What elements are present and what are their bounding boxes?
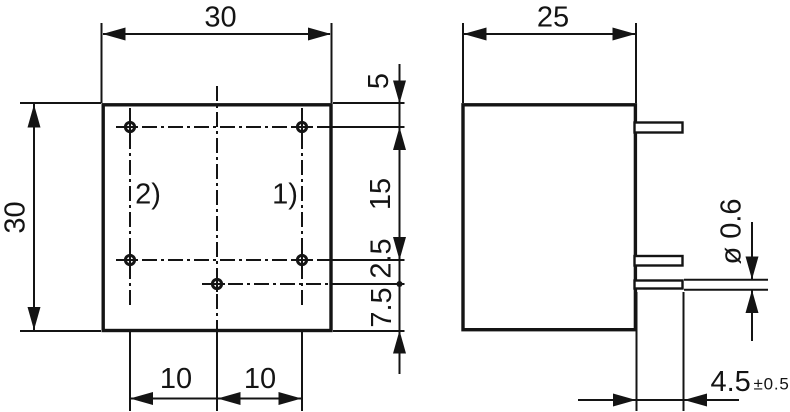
svg-text:5: 5 (363, 73, 395, 89)
svg-text:30: 30 (204, 2, 236, 34)
svg-text:25: 25 (537, 2, 569, 34)
svg-text:2): 2) (135, 179, 161, 211)
svg-text:10: 10 (160, 363, 192, 395)
svg-text:10: 10 (244, 363, 276, 395)
svg-text:4.5: 4.5 (711, 366, 751, 398)
svg-text:2.5: 2.5 (366, 238, 398, 278)
svg-text:7.5: 7.5 (366, 287, 398, 327)
svg-text:±0.5: ±0.5 (754, 375, 790, 394)
svg-text:1): 1) (272, 179, 298, 211)
svg-text:15: 15 (365, 178, 397, 210)
svg-text:ø 0.6: ø 0.6 (716, 198, 748, 264)
svg-text:30: 30 (0, 201, 32, 233)
